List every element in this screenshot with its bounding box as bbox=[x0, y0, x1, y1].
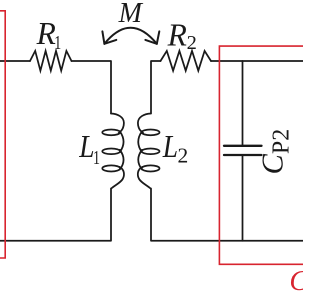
svg-text:M: M bbox=[118, 0, 144, 29]
resistor R2 bbox=[161, 51, 212, 71]
svg-text:L: L bbox=[162, 129, 178, 164]
wire bbox=[151, 189, 303, 241]
wire bbox=[0, 189, 111, 241]
wire bbox=[242, 155, 244, 241]
mutual coupling arrow M bbox=[102, 28, 159, 44]
box coil 1 (red outline, cut off left) bbox=[0, 11, 5, 258]
box coil 2 / C_P2 (red outline, cut off right) bbox=[219, 46, 303, 264]
svg-text:1: 1 bbox=[54, 32, 61, 54]
wire bbox=[72, 61, 112, 114]
svg-text:2: 2 bbox=[178, 144, 189, 168]
wire bbox=[0, 60, 30, 62]
inductor L2 bbox=[138, 114, 160, 189]
inductor L1 bbox=[102, 114, 124, 189]
svg-text:R: R bbox=[36, 16, 56, 51]
wire bbox=[151, 61, 161, 114]
wire bbox=[211, 60, 303, 62]
svg-text:R: R bbox=[167, 17, 187, 52]
capacitor C_P2 bbox=[224, 146, 262, 155]
resistor R1 bbox=[30, 51, 72, 71]
svg-text:C: C bbox=[289, 266, 303, 297]
svg-text:1: 1 bbox=[93, 147, 100, 169]
wire bbox=[242, 61, 244, 146]
svg-text:CP2: CP2 bbox=[256, 129, 295, 175]
svg-text:2: 2 bbox=[187, 32, 197, 54]
